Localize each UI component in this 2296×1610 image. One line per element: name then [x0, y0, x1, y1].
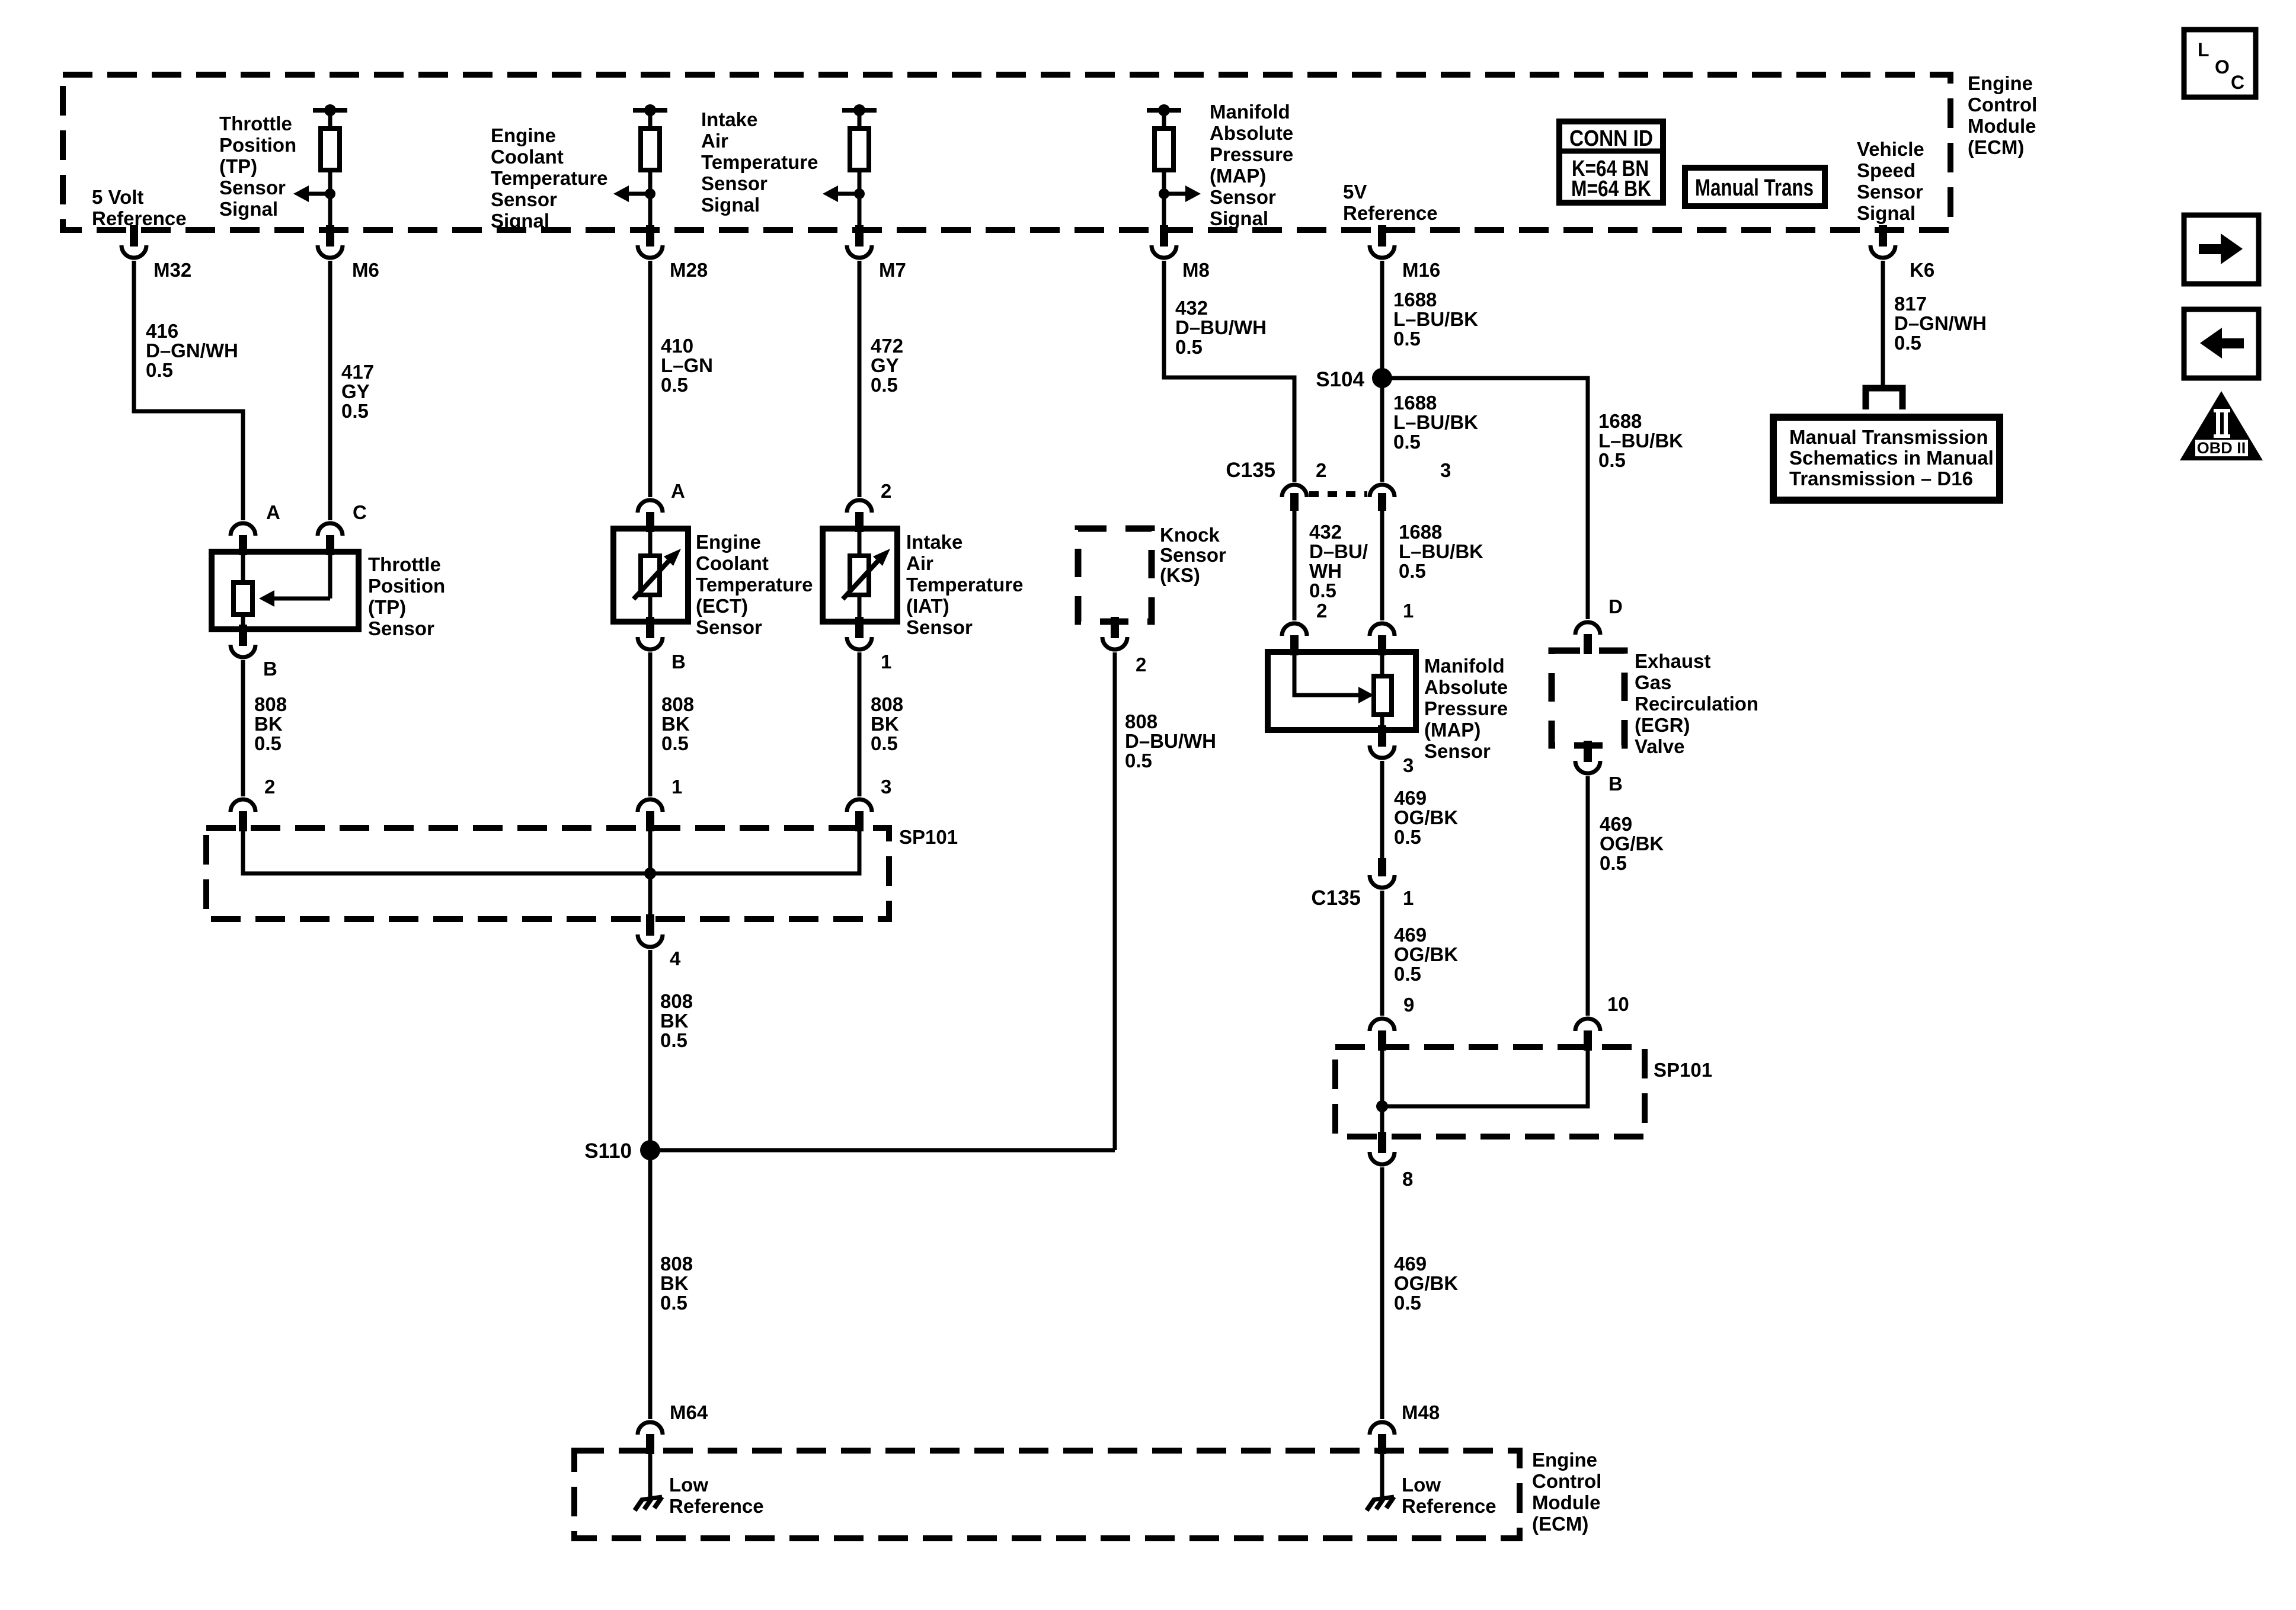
svg-text:Transmission – D16: Transmission – D16 [1789, 468, 1973, 489]
svg-text:Pressure: Pressure [1210, 143, 1293, 165]
svg-text:0.5: 0.5 [1309, 580, 1336, 601]
svg-text:BK: BK [871, 713, 899, 735]
svg-text:2: 2 [1316, 459, 1326, 481]
svg-text:Intake: Intake [906, 531, 962, 553]
splice SP101 dashed box (right) [1335, 1047, 1712, 1137]
svg-text:C: C [353, 501, 367, 523]
junction in SP101 (right) [1376, 1100, 1388, 1112]
svg-text:(TP): (TP) [219, 155, 257, 177]
wire MAP branch through SP101 [1380, 1047, 1384, 1137]
label: Intake Air Temperature (IAT) Sensor [906, 531, 1023, 638]
svg-text:BK: BK [660, 1010, 689, 1032]
label: Exhaust Gas Recirculation (EGR) Valve [1635, 650, 1758, 757]
svg-text:432: 432 [1175, 297, 1208, 319]
svg-text:D–BU/WH: D–BU/WH [1125, 730, 1216, 752]
connector SP101 pin 4 [638, 914, 681, 969]
svg-text:Engine: Engine [491, 124, 556, 146]
wire 416 M32->TP A [134, 261, 243, 520]
svg-text:(ECM): (ECM) [1532, 1513, 1588, 1535]
connector SP101 pin 10 [1575, 993, 1629, 1051]
svg-text:CONN ID: CONN ID [1569, 126, 1653, 151]
svg-text:Throttle: Throttle [219, 113, 292, 135]
svg-text:0.5: 0.5 [1894, 332, 1921, 354]
Knock Sensor dashed box [1078, 529, 1152, 622]
svg-text:0.5: 0.5 [1393, 431, 1421, 453]
svg-text:L: L [2198, 39, 2209, 60]
connector SP101 pin 1 [638, 776, 682, 831]
label: Engine Coolant Temperature Sensor Signal [491, 124, 607, 232]
svg-text:D: D [1609, 596, 1623, 617]
svg-text:Sensor: Sensor [1160, 544, 1226, 566]
svg-text:M6: M6 [352, 259, 379, 281]
svg-text:808: 808 [1125, 710, 1157, 732]
svg-text:Control: Control [1532, 1470, 1601, 1492]
svg-text:417: 417 [341, 361, 374, 383]
svg-text:416: 416 [146, 320, 178, 342]
label: Engine Coolant Temperature (ECT) Sensor [696, 531, 813, 638]
svg-text:M48: M48 [1402, 1401, 1440, 1423]
svg-text:M7: M7 [879, 259, 906, 281]
svg-text:GY: GY [341, 380, 370, 402]
connector ECT pin A [638, 480, 685, 532]
connector MAP pin 2 [1282, 600, 1327, 655]
svg-text:Manual Trans: Manual Trans [1695, 175, 1814, 201]
svg-text:C135: C135 [1226, 459, 1275, 482]
svg-text:(EGR): (EGR) [1635, 714, 1690, 736]
wire 469 MAP->C135 1 [1380, 761, 1384, 858]
svg-text:Signal: Signal [491, 210, 549, 232]
label wire 416 D-GN/WH 0.5 [146, 320, 238, 381]
svg-text:OG/BK: OG/BK [1600, 833, 1664, 854]
resistor MAP signal (in ECM) [1147, 104, 1201, 230]
label wire 469 OG/BK 0.5 (MAP) [1394, 787, 1458, 848]
svg-text:OG/BK: OG/BK [1394, 806, 1458, 828]
svg-text:Sensor: Sensor [1424, 740, 1491, 762]
svg-text:432: 432 [1309, 521, 1342, 543]
svg-text:Signal: Signal [701, 194, 760, 216]
svg-text:Engine: Engine [1532, 1449, 1597, 1471]
svg-text:1: 1 [1403, 887, 1414, 909]
svg-text:Manifold: Manifold [1424, 655, 1505, 677]
wire 417 M6->TP C [328, 261, 332, 520]
resistor TP signal (in ECM) [293, 104, 347, 230]
label: Engine Control Module (ECM) top [1968, 72, 2037, 158]
label: Knock Sensor (KS) [1160, 524, 1226, 586]
ECM bottom dashed box [574, 1451, 1520, 1538]
label wire 432 D-BU/WH 0.5 (lower) [1309, 521, 1368, 601]
label wire 808 BK 0.5 (to M64) [660, 1253, 693, 1314]
wire 808 KS->S110 [1113, 652, 1117, 1150]
svg-text:BK: BK [660, 1272, 689, 1294]
label wire 472 GY 0.5 [871, 335, 903, 396]
svg-text:Speed: Speed [1857, 159, 1916, 181]
MAP potentiometer [1374, 652, 1392, 730]
svg-text:1688: 1688 [1393, 392, 1437, 414]
left-arrow icon [2184, 309, 2259, 378]
svg-text:0.5: 0.5 [1600, 852, 1627, 874]
svg-text:D–GN/WH: D–GN/WH [1894, 312, 1987, 334]
svg-text:Throttle: Throttle [368, 553, 441, 575]
svg-text:0.5: 0.5 [146, 359, 173, 381]
svg-text:Recirculation: Recirculation [1635, 693, 1758, 715]
label wire 808 BK 0.5 (TP) [254, 693, 287, 754]
resistor IAT signal (in ECM) [823, 104, 877, 230]
label: Vehicle Speed Sensor Signal [1857, 138, 1924, 224]
label wire 808 BK 0.5 (IAT) [871, 693, 903, 754]
svg-text:B: B [671, 651, 686, 673]
svg-text:3: 3 [1403, 754, 1414, 776]
svg-text:3: 3 [881, 776, 891, 798]
svg-text:0.5: 0.5 [871, 374, 898, 396]
svg-text:Air: Air [906, 552, 933, 574]
svg-text:BK: BK [254, 713, 283, 735]
svg-text:0.5: 0.5 [661, 374, 688, 396]
svg-text:0.5: 0.5 [1394, 1292, 1421, 1314]
svg-text:9: 9 [1403, 994, 1414, 1016]
svg-text:0.5: 0.5 [1394, 963, 1421, 985]
svg-text:1: 1 [1403, 600, 1414, 622]
ground M64 Low Reference [635, 1451, 764, 1517]
svg-text:Low: Low [1402, 1474, 1441, 1496]
IAT thermistor [843, 529, 890, 622]
svg-text:Engine: Engine [696, 531, 761, 553]
svg-text:8: 8 [1402, 1168, 1413, 1190]
svg-text:L–BU/BK: L–BU/BK [1393, 411, 1478, 433]
label wire 1688 L-BU/BK 0.5 (EGR branch) [1598, 410, 1683, 471]
connector SP101 pin 9 [1370, 994, 1414, 1051]
right-arrow icon [2184, 215, 2259, 284]
svg-text:808: 808 [871, 693, 903, 715]
svg-text:(KS): (KS) [1160, 564, 1200, 586]
wire S104->EGR D [1382, 378, 1588, 619]
connector K6 (ECM) [1870, 225, 1934, 281]
svg-text:3: 3 [1440, 459, 1451, 481]
svg-text:SP101: SP101 [899, 826, 958, 848]
svg-text:M32: M32 [154, 259, 191, 281]
wire 808 S110->M64 [648, 1150, 653, 1419]
svg-text:5 Volt: 5 Volt [92, 186, 143, 208]
svg-text:0.5: 0.5 [871, 732, 898, 754]
wire 808 IAT->SP101 3 [858, 652, 862, 796]
svg-text:WH: WH [1309, 560, 1342, 582]
label wire 1688 L-BU/BK 0.5 (upper) [1393, 289, 1478, 350]
svg-text:OG/BK: OG/BK [1394, 1272, 1458, 1294]
svg-text:Reference: Reference [92, 207, 187, 229]
label: Throttle Position (TP) Sensor Signal [219, 113, 296, 220]
wire S110->KS branch [650, 1148, 1115, 1153]
svg-text:Reference: Reference [1402, 1495, 1496, 1517]
svg-text:(MAP): (MAP) [1424, 719, 1480, 741]
svg-text:(IAT): (IAT) [906, 595, 949, 617]
node S104 [1316, 368, 1392, 391]
svg-text:Temperature: Temperature [696, 574, 813, 596]
svg-text:469: 469 [1394, 787, 1427, 809]
label wire 1688 L-BU/BK 0.5 (lower) [1399, 521, 1483, 582]
connector M7 (ECM) [847, 225, 906, 281]
label wire 469 OG/BK 0.5 (mid) [1394, 924, 1458, 985]
svg-text:Position: Position [219, 134, 296, 156]
wire K6 fork stub [1881, 385, 1885, 391]
connector IAT pin 2 [847, 480, 891, 532]
TP wiper arrow [259, 552, 330, 607]
svg-text:Signal: Signal [219, 198, 278, 220]
svg-text:Signal: Signal [1210, 207, 1268, 229]
connector EGR pin D [1575, 596, 1623, 654]
connector SP101 pin 8 [1370, 1132, 1413, 1190]
Manual Transmission Schematics box [1773, 417, 2000, 500]
label: Throttle Position (TP) Sensor [368, 553, 445, 639]
svg-text:Reference: Reference [1343, 202, 1438, 224]
label wire 417 GY 0.5 [341, 361, 374, 422]
wire 808 SP101 4->S110 [648, 950, 653, 1150]
MAP sensor box [1268, 652, 1416, 730]
svg-text:K6: K6 [1910, 259, 1934, 281]
label wire 469 OG/BK 0.5 (to M48) [1394, 1253, 1458, 1314]
svg-text:2: 2 [1136, 654, 1146, 676]
wire EGR branch in SP101 [1382, 1047, 1588, 1106]
ground M48 Low Reference [1367, 1451, 1496, 1517]
svg-text:Low: Low [669, 1474, 708, 1496]
svg-text:Module: Module [1968, 115, 2036, 137]
svg-text:0.5: 0.5 [660, 1292, 687, 1314]
svg-text:M64: M64 [670, 1401, 708, 1423]
svg-text:4: 4 [670, 948, 681, 969]
IAT sensor box [823, 529, 897, 622]
svg-text:Signal: Signal [1857, 202, 1916, 224]
svg-text:1688: 1688 [1393, 289, 1437, 311]
wire 410 M28->ECT A [648, 261, 653, 497]
svg-text:Gas: Gas [1635, 671, 1671, 693]
svg-text:1: 1 [881, 651, 891, 673]
wire TP branch in SP101 [243, 828, 859, 873]
connector KS pin 2 [1102, 617, 1146, 676]
svg-text:Engine: Engine [1968, 72, 2033, 94]
connector M6 (ECM) [318, 225, 379, 281]
svg-text:Coolant: Coolant [491, 146, 564, 168]
svg-text:Valve: Valve [1635, 735, 1684, 757]
svg-text:D–BU/: D–BU/ [1309, 540, 1368, 562]
svg-text:Module: Module [1532, 1491, 1600, 1513]
TP sensor box [212, 552, 359, 629]
svg-text:Sensor: Sensor [1857, 181, 1923, 203]
svg-text:Sensor: Sensor [701, 172, 768, 194]
svg-text:0.5: 0.5 [661, 732, 689, 754]
ECT sensor box [613, 529, 688, 622]
label wire 817 D-GN/WH 0.5 [1894, 293, 1987, 354]
connector C135 pin 2 (upper) [1226, 459, 1326, 511]
svg-text:Sensor: Sensor [491, 188, 557, 210]
svg-text:0.5: 0.5 [341, 400, 369, 422]
svg-text:Temperature: Temperature [491, 167, 607, 189]
svg-text:(TP): (TP) [368, 596, 406, 618]
TP potentiometer [234, 552, 252, 629]
svg-text:Vehicle: Vehicle [1857, 138, 1924, 160]
svg-text:SP101: SP101 [1654, 1059, 1712, 1081]
connector ECT pin B [638, 617, 686, 673]
svg-text:D–GN/WH: D–GN/WH [146, 340, 238, 361]
svg-text:Temperature: Temperature [701, 151, 818, 173]
connector IAT pin 1 [847, 617, 891, 673]
svg-text:M8: M8 [1182, 259, 1210, 281]
label: 5V Reference (inside ECM) [1343, 181, 1438, 224]
svg-text:S104: S104 [1316, 368, 1364, 391]
connector C135 pin 3 (upper) [1370, 459, 1451, 511]
svg-text:Air: Air [701, 130, 728, 152]
svg-text:0.5: 0.5 [1175, 336, 1203, 358]
wire 469 SP101 8->M48 [1380, 1167, 1384, 1419]
svg-text:OBD II: OBD II [2197, 439, 2246, 457]
svg-text:Sensor: Sensor [368, 617, 434, 639]
svg-text:1688: 1688 [1399, 521, 1442, 543]
svg-text:0.5: 0.5 [1598, 449, 1626, 471]
svg-text:B: B [1609, 773, 1623, 795]
svg-text:Intake: Intake [701, 108, 757, 130]
svg-text:A: A [266, 501, 280, 523]
junction in SP101 (left) [644, 868, 656, 879]
connector M8 (ECM) [1152, 225, 1210, 281]
svg-text:(MAP): (MAP) [1210, 165, 1266, 187]
connector EGR pin B [1575, 741, 1623, 795]
resistor ECT signal (in ECM) [613, 104, 667, 230]
MAP wiper arrow [1294, 652, 1374, 703]
svg-text:M=64 BK: M=64 BK [1571, 177, 1651, 201]
label wire 808 D-BU/WH 0.5 (KS) [1125, 710, 1216, 772]
svg-text:GY: GY [871, 354, 899, 376]
off-page fork to Manual Transmission [1866, 388, 1902, 409]
wire 808 ECT B->SP101 1 [648, 652, 653, 796]
svg-text:Control: Control [1968, 94, 2037, 116]
svg-text:Sensor: Sensor [1210, 186, 1276, 208]
svg-text:Absolute: Absolute [1210, 122, 1293, 144]
connector SP101 pin 2 [231, 776, 275, 831]
label: Manifold Absolute Pressure (MAP) Sensor Signal [1210, 101, 1293, 229]
svg-text:OG/BK: OG/BK [1394, 943, 1458, 965]
svg-text:B: B [263, 658, 277, 680]
svg-text:Coolant: Coolant [696, 552, 769, 574]
svg-text:410: 410 [661, 335, 693, 357]
svg-text:Reference: Reference [669, 1495, 764, 1517]
svg-text:BK: BK [661, 713, 690, 735]
label wire 410 L-GN 0.5 [661, 335, 713, 396]
connector TP pin A [231, 501, 280, 555]
svg-text:(ECM): (ECM) [1968, 136, 2024, 158]
svg-text:D–BU/WH: D–BU/WH [1175, 316, 1267, 338]
svg-text:L–GN: L–GN [661, 354, 713, 376]
label wire 808 BK 0.5 (ECT) [661, 693, 694, 754]
wire 469 C135->SP101 9 [1380, 891, 1384, 1016]
connector M16 (ECM) [1370, 225, 1440, 281]
svg-text:Exhaust: Exhaust [1635, 650, 1710, 672]
svg-text:469: 469 [1600, 813, 1632, 835]
wire ECT through SP101 [648, 828, 653, 919]
svg-text:1: 1 [671, 776, 682, 798]
svg-text:S110: S110 [584, 1140, 632, 1163]
label: Intake Air Temperature Sensor Signal [701, 108, 818, 216]
svg-text:Temperature: Temperature [906, 574, 1023, 596]
svg-text:L–BU/BK: L–BU/BK [1393, 308, 1478, 330]
label wire 808 BK 0.5 (below SP101) [660, 990, 693, 1051]
svg-text:(ECT): (ECT) [696, 595, 748, 617]
connector TP pin C [318, 501, 367, 555]
ECM top dashed box [63, 75, 1950, 230]
svg-text:469: 469 [1394, 924, 1427, 946]
connector M48 [1370, 1401, 1440, 1454]
svg-text:L–BU/BK: L–BU/BK [1399, 540, 1483, 562]
svg-text:469: 469 [1394, 1253, 1427, 1275]
Manual Trans box [1685, 168, 1825, 206]
svg-text:0.5: 0.5 [1393, 328, 1421, 350]
svg-text:Sensor: Sensor [696, 616, 762, 638]
svg-text:Knock: Knock [1160, 524, 1220, 546]
svg-text:Sensor: Sensor [906, 616, 973, 638]
svg-text:817: 817 [1894, 293, 1927, 315]
C135 dashed link [1309, 491, 1367, 497]
connector M32 (ECM) [121, 225, 191, 281]
wire 808 TP B->SP101 2 [241, 660, 245, 796]
svg-text:Manifold: Manifold [1210, 101, 1290, 123]
splice SP101 dashed box (left) [206, 826, 958, 919]
svg-text:M28: M28 [670, 259, 708, 281]
wire 432 M8->C135 [1164, 261, 1294, 482]
connector M28 (ECM) [638, 225, 708, 281]
svg-text:0.5: 0.5 [254, 732, 282, 754]
svg-text:2: 2 [1316, 600, 1327, 622]
svg-text:C: C [2231, 72, 2244, 93]
connector MAP pin 3 [1370, 725, 1414, 776]
svg-text:808: 808 [660, 1253, 693, 1275]
svg-text:Sensor: Sensor [219, 177, 286, 199]
wire 817 K6->fork [1881, 261, 1885, 386]
svg-text:0.5: 0.5 [1399, 560, 1426, 582]
EGR dashed box [1552, 651, 1625, 745]
wire 1688 C135->MAP 1 [1380, 511, 1384, 620]
wire 469 EGR B->SP101 10 [1586, 776, 1590, 1016]
svg-text:1688: 1688 [1598, 410, 1642, 432]
connector M64 [638, 1401, 708, 1454]
svg-text:2: 2 [264, 776, 275, 798]
connector SP101 pin 3 [847, 776, 891, 831]
svg-text:808: 808 [660, 990, 693, 1012]
label: 5 Volt Reference (inside ECM) [92, 186, 187, 229]
connector C135 pin 1 (lower) [1311, 858, 1414, 910]
svg-text:5V: 5V [1343, 181, 1367, 203]
svg-text:10: 10 [1607, 993, 1629, 1015]
svg-text:472: 472 [871, 335, 903, 357]
node S110 [584, 1140, 660, 1163]
label: Manifold Absolute Pressure (MAP) Sensor [1424, 655, 1508, 762]
label wire 1688 L-BU/BK 0.5 (below S104) [1393, 392, 1478, 453]
svg-text:2: 2 [881, 480, 891, 502]
label wire 469 OG/BK 0.5 (EGR) [1600, 813, 1664, 874]
label wire 432 D-BU/WH 0.5 [1175, 297, 1267, 358]
svg-text:Pressure: Pressure [1424, 697, 1508, 719]
svg-text:0.5: 0.5 [1394, 826, 1421, 848]
svg-text:O: O [2215, 56, 2230, 78]
svg-text:0.5: 0.5 [660, 1029, 687, 1051]
wire 432 C135->MAP 2 [1293, 511, 1297, 620]
label: Engine Control Module (ECM) bottom [1532, 1449, 1601, 1535]
svg-text:Position: Position [368, 575, 445, 597]
ECT thermistor [634, 529, 681, 622]
OBD II triangle icon [2180, 391, 2263, 460]
svg-text:808: 808 [254, 693, 287, 715]
svg-text:L–BU/BK: L–BU/BK [1598, 430, 1683, 452]
svg-text:Absolute: Absolute [1424, 676, 1508, 698]
connector MAP pin 1 [1370, 600, 1414, 655]
svg-text:808: 808 [661, 693, 694, 715]
wire 472 M7->IAT 2 [858, 261, 862, 497]
connector TP pin B [231, 625, 277, 680]
